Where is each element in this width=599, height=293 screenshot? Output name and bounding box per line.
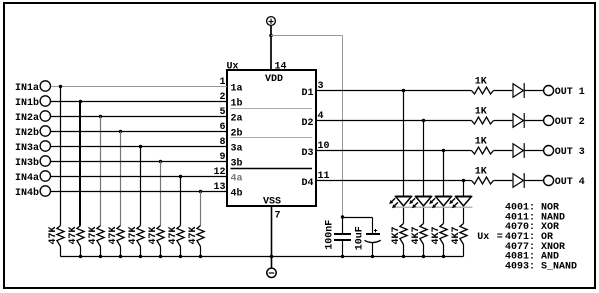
pin VSS label [263, 196, 281, 207]
svg-text:IN4a: IN4a [15, 173, 39, 184]
wire IN2b to IC pin 6 [51, 131, 227, 133]
IC pin label 4b [231, 188, 243, 200]
pin number 10 [318, 141, 330, 152]
svg-text:VDD: VDD [265, 74, 283, 85]
terminal IN1b [40, 96, 50, 106]
node D1 LED junction [402, 89, 405, 92]
wire 1K to diode 3 [494, 150, 513, 152]
resistor 47K pulldown IN4a [168, 226, 184, 247]
terminal IN4b [40, 186, 50, 196]
wire IN1a dropper [60, 87, 62, 226]
svg-text:2b: 2b [231, 128, 243, 140]
svg-text:13: 13 [213, 182, 225, 193]
wire diode to OUT 3 [525, 150, 544, 152]
svg-text:4b: 4b [231, 188, 243, 200]
label IN1b [15, 97, 39, 109]
label IN3a [15, 143, 39, 154]
capacitor 100nF [325, 217, 352, 257]
svg-text:D2: D2 [302, 118, 314, 129]
svg-text:IN2a: IN2a [15, 113, 39, 124]
pin number 9 [219, 152, 225, 163]
pin number 6 [219, 122, 225, 133]
IC pin label 1b [231, 98, 243, 110]
wire D1 output [316, 90, 472, 92]
svg-text:4a: 4a [231, 174, 243, 185]
label device table [505, 202, 577, 272]
wire IN4b dropper [200, 192, 202, 226]
wire D3 to LED 3 [443, 151, 445, 197]
label IN1a [15, 83, 39, 94]
pin number 8 [219, 137, 225, 148]
wire IN2b dropper [120, 132, 122, 226]
pin 7 label [275, 211, 281, 222]
svg-text:1K: 1K [475, 137, 487, 148]
svg-text:4093: S_NAND: 4093: S_NAND [505, 262, 577, 273]
wire LED 2 to 4K7 [423, 208, 425, 224]
terminal V- [267, 268, 276, 277]
wire IN4a dropper [180, 177, 182, 226]
node junction IN1a [59, 85, 62, 88]
resistor 4K7 number 1 [391, 224, 407, 245]
svg-text:VSS: VSS [263, 196, 281, 207]
resistor 4K7 number 2 [411, 224, 427, 245]
resistor 4K7 number 4 [451, 224, 467, 245]
pin number 2 [219, 92, 225, 103]
svg-text:5: 5 [219, 107, 225, 118]
svg-text:1K: 1K [475, 107, 487, 118]
pin number 5 [219, 107, 225, 118]
node junction IN3b [159, 160, 162, 163]
diode series OUT 2 [513, 113, 524, 128]
wire VSS pin 7 [271, 206, 273, 268]
wire IN1b dropper [79, 102, 81, 226]
node rail LED junction 2 [422, 255, 425, 258]
pin 14 label [275, 61, 287, 72]
resistor 47K pulldown IN3b [148, 226, 164, 247]
wire IN3a dropper [140, 147, 142, 226]
label IN4a [15, 173, 39, 184]
LED indicator 3 [429, 197, 452, 209]
label IN2b [15, 127, 39, 139]
wire IN1b to IC pin 2 [51, 101, 227, 103]
resistor 47K pulldown IN2a [88, 226, 104, 247]
wire 47K to rail IN2a [100, 247, 102, 257]
IC pin label 2b [231, 128, 243, 140]
svg-text:47K: 47K [168, 226, 179, 244]
wire D4 to LED 4 [463, 181, 465, 197]
terminal IN3b [40, 156, 50, 166]
wire 4K7 to rail 1 [403, 245, 405, 257]
svg-text:7: 7 [275, 211, 281, 222]
svg-text:47K: 47K [188, 226, 199, 244]
IC pin label 1a [231, 84, 243, 95]
svg-text:47K: 47K [68, 226, 79, 244]
wire IN4b to IC pin 13 [51, 191, 227, 193]
node D4 LED junction [462, 179, 465, 182]
resistor 1K D2 [472, 107, 494, 125]
label IN3b [15, 157, 39, 169]
IC separator 2 [231, 137, 313, 139]
terminal IN2a [40, 111, 50, 121]
wire 47K to rail IN3b [160, 247, 162, 257]
node rail LED junction 1 [402, 255, 405, 258]
svg-text:47K: 47K [108, 226, 119, 244]
svg-text:IN1a: IN1a [15, 83, 39, 94]
wire LED 3 to 4K7 [443, 208, 445, 224]
svg-text:8: 8 [219, 137, 225, 148]
wire 47K to rail IN1b [80, 247, 82, 257]
resistor 47K pulldown IN1a [48, 226, 64, 247]
svg-text:4K7: 4K7 [451, 226, 462, 244]
svg-text:4K7: 4K7 [391, 226, 402, 244]
wire 47K to rail IN3a [140, 247, 142, 257]
svg-text:OUT 2: OUT 2 [555, 117, 585, 128]
wire IN2a dropper [100, 117, 102, 226]
svg-text:OUT 3: OUT 3 [555, 147, 585, 158]
node rail junction x140 [139, 255, 142, 258]
terminal IN3a [40, 141, 50, 151]
wire 4K7 to rail 3 [443, 245, 445, 257]
svg-text:D1: D1 [302, 88, 314, 99]
pin number 11 [318, 171, 330, 182]
node rail junction x120 [119, 255, 122, 258]
node junction IN4a [179, 175, 182, 178]
terminal OUT 2 [544, 116, 554, 126]
node rail junction x100 [99, 255, 102, 258]
pin number 13 [213, 182, 225, 193]
svg-text:10uF: 10uF [355, 226, 366, 250]
svg-text:47K: 47K [88, 226, 99, 244]
wire 1K to diode 4 [494, 180, 513, 182]
wire diode to OUT 1 [525, 90, 544, 92]
pin number 1 [219, 77, 225, 88]
svg-text:D4: D4 [302, 178, 314, 189]
wire V+ to pin 14 [270, 25, 272, 70]
IC label Ux [227, 61, 239, 72]
node rail junction x180 [179, 255, 182, 258]
svg-text:Ux: Ux [477, 232, 489, 243]
wire diode to OUT 2 [525, 120, 544, 122]
svg-text:1: 1 [219, 77, 225, 88]
svg-text:1K: 1K [475, 77, 487, 88]
diode series OUT 1 [513, 83, 524, 98]
wire IN1a to IC pin 1 [51, 86, 227, 88]
IC pin label D3 [302, 148, 314, 159]
svg-text:IN2b: IN2b [15, 127, 39, 139]
svg-text:47K: 47K [48, 226, 59, 244]
terminal IN4a [40, 171, 50, 181]
svg-text:IN1b: IN1b [15, 97, 39, 109]
diode series OUT 4 [513, 173, 524, 188]
wire cap branch to 10uF [343, 218, 373, 234]
wire 4K7 to rail 4 [463, 245, 465, 257]
node rail junction x160 [159, 255, 162, 258]
IC Ux box [227, 70, 316, 206]
pin number 3 [318, 81, 324, 92]
svg-text:47K: 47K [148, 226, 159, 244]
label IN2a [15, 113, 39, 124]
node rail LED junction 3 [442, 255, 445, 258]
svg-text:2a: 2a [231, 114, 243, 125]
resistor 1K D3 [472, 137, 494, 155]
svg-text:Ux: Ux [227, 61, 239, 72]
wire 47K to rail IN1a [60, 247, 62, 257]
label OUT 2 [555, 117, 585, 128]
svg-text:4K7: 4K7 [411, 226, 422, 244]
wire IN3b dropper [160, 162, 162, 226]
terminal V+ [267, 17, 276, 26]
capacitor 10uF polarized [355, 226, 381, 256]
node rail 100nF junction [341, 255, 344, 258]
node D3 LED junction [442, 149, 445, 152]
terminal IN1a [40, 81, 50, 91]
resistor 47K pulldown IN1b [68, 226, 84, 247]
pin number 12 [213, 167, 225, 178]
svg-text:IN3b: IN3b [15, 157, 39, 169]
LED indicator 1 [389, 197, 412, 209]
svg-text:IN3a: IN3a [15, 143, 39, 154]
node junction IN2b [119, 130, 122, 133]
wire 4K7 to rail 2 [423, 245, 425, 257]
wire 1K to diode 2 [494, 120, 513, 122]
svg-text:6: 6 [219, 122, 225, 133]
node rail 10uF junction [371, 255, 374, 258]
node rail junction x200 [199, 255, 202, 258]
resistor 4K7 number 3 [431, 224, 447, 245]
wire D1 to LED 1 [403, 91, 405, 197]
node supply junction [269, 34, 273, 38]
wire IN2a to IC pin 5 [51, 116, 227, 118]
wire D2 to LED 2 [423, 121, 425, 197]
resistor 47K pulldown IN2b [108, 226, 124, 247]
label OUT 3 [555, 147, 585, 158]
terminal OUT 1 [544, 86, 554, 96]
pin number 4 [318, 111, 324, 122]
svg-text:9: 9 [219, 152, 225, 163]
wire IN4a to IC pin 12 [51, 176, 227, 178]
wire D3 output [316, 150, 472, 152]
resistor 47K pulldown IN4b [188, 226, 204, 247]
IC pin label D1 [302, 88, 314, 99]
svg-text:1b: 1b [231, 98, 243, 110]
svg-text:14: 14 [275, 61, 287, 72]
wire supply branch to decoupling caps [271, 36, 343, 217]
wire 47K to rail IN2b [120, 247, 122, 257]
IC pin label 2a [231, 114, 243, 125]
svg-text:100nF: 100nF [325, 220, 336, 250]
node junction IN4b [199, 190, 202, 193]
wire 47K to rail IN4a [180, 247, 182, 257]
IC pin label 3a [231, 144, 243, 155]
node cap junction [341, 215, 344, 218]
wire IN3b to IC pin 9 [51, 161, 227, 163]
wire 47K to rail IN4b [200, 247, 202, 257]
svg-text:2: 2 [219, 92, 225, 103]
svg-text:4K7: 4K7 [431, 226, 442, 244]
label OUT 4 [555, 177, 585, 188]
wire LED 4 to 4K7 [463, 208, 465, 224]
diode series OUT 3 [513, 143, 524, 158]
node rail pin7 junction [270, 255, 274, 259]
resistor 1K D4 [472, 167, 494, 185]
label Ux = [477, 232, 503, 243]
IC pin label D4 [302, 178, 314, 189]
IC pin label 4a [231, 174, 243, 185]
svg-text:3b: 3b [231, 158, 243, 170]
wire IN3a to IC pin 8 [51, 146, 227, 148]
label OUT 1 [555, 87, 585, 98]
IC pin label 3b [231, 158, 243, 170]
svg-text:OUT 4: OUT 4 [555, 177, 585, 188]
node junction IN1b [79, 100, 82, 103]
node D2 LED junction [422, 119, 425, 122]
wire LED 1 to 4K7 [403, 208, 405, 224]
resistor 1K D1 [472, 77, 494, 95]
IC separator 1 [231, 108, 313, 110]
resistor 47K pulldown IN3a [128, 226, 144, 247]
node rail junction x80 [79, 255, 82, 258]
svg-text:OUT 1: OUT 1 [555, 87, 585, 98]
wire diode to OUT 4 [525, 180, 544, 182]
svg-text:1a: 1a [231, 84, 243, 95]
LED indicator 2 [409, 197, 432, 209]
wire ground rail [61, 256, 464, 258]
svg-text:=: = [497, 232, 503, 243]
wire D2 output [316, 120, 472, 122]
pin VDD label [265, 74, 283, 85]
svg-text:47K: 47K [128, 226, 139, 244]
svg-text:12: 12 [213, 167, 225, 178]
terminal OUT 3 [544, 146, 554, 156]
svg-text:3a: 3a [231, 144, 243, 155]
svg-text:D3: D3 [302, 148, 314, 159]
node junction IN2a [99, 115, 102, 118]
terminal IN2b [40, 126, 50, 136]
IC separator 3 [231, 168, 313, 170]
IC pin label D2 [302, 118, 314, 129]
svg-text:1K: 1K [475, 167, 487, 178]
terminal OUT 4 [544, 176, 554, 186]
wire 1K to diode 1 [494, 90, 513, 92]
svg-text:IN4b: IN4b [15, 187, 39, 199]
label IN4b [15, 187, 39, 199]
LED indicator 4 [449, 197, 472, 209]
node junction IN3a [139, 145, 142, 148]
wire D4 output [316, 180, 472, 182]
